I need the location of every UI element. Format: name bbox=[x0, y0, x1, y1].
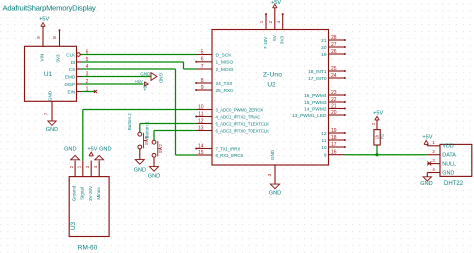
svg-text:Signal: Signal bbox=[79, 187, 84, 200]
svg-text:9: 9 bbox=[324, 153, 327, 159]
svg-text:19: 19 bbox=[321, 52, 327, 58]
svg-text:5V: 5V bbox=[272, 34, 277, 41]
svg-text:21: 21 bbox=[331, 104, 337, 110]
svg-text:4_ADC1_IRTX2_TRIAC: 4_ADC1_IRTX2_TRIAC bbox=[216, 114, 261, 119]
DHT22 pin 1 VDD bbox=[427, 145, 440, 147]
no-connect at DHT22 NULL bbox=[427, 161, 431, 165]
svg-text:17_INT0: 17_INT0 bbox=[308, 76, 327, 82]
svg-text:+5V: +5V bbox=[39, 17, 49, 23]
power +5V sideways on DISP bbox=[145, 82, 149, 86]
svg-text:+5V: +5V bbox=[142, 82, 147, 91]
svg-text:19: 19 bbox=[331, 128, 337, 134]
svg-text:3V3: 3V3 bbox=[280, 35, 285, 44]
U2 pin 27 20 bbox=[329, 46, 345, 48]
svg-text:5: 5 bbox=[201, 49, 204, 55]
svg-text:R2: R2 bbox=[380, 133, 385, 139]
svg-text:GND: GND bbox=[159, 73, 164, 84]
svg-text:16_PWM4: 16_PWM4 bbox=[304, 93, 327, 99]
svg-text:25_RX0: 25_RX0 bbox=[216, 88, 234, 94]
svg-text:10: 10 bbox=[198, 104, 204, 110]
wire EMD to GND flag bbox=[81, 76, 151, 78]
svg-text:D_SCK: D_SCK bbox=[216, 52, 233, 58]
svg-text:24: 24 bbox=[331, 73, 337, 79]
resistor R2 bbox=[376, 145, 378, 155]
svg-text:U2: U2 bbox=[267, 81, 276, 88]
U3 pin 3 3V-20V bbox=[90, 161, 92, 177]
svg-text:7: 7 bbox=[201, 64, 204, 70]
svg-text:22: 22 bbox=[331, 97, 337, 103]
svg-text:DHT22: DHT22 bbox=[444, 181, 464, 187]
svg-text:+5V: +5V bbox=[87, 147, 97, 153]
svg-text:4: 4 bbox=[432, 167, 435, 172]
U2 pin 13 6_ADC3_IRTX0_T0EXTCLK bbox=[197, 130, 213, 132]
U1 pin 1 EIN bbox=[77, 91, 82, 93]
U1 pin 5 DI bbox=[77, 61, 82, 63]
svg-text:VDD: VDD bbox=[442, 144, 453, 150]
wire SW2 to U2 6_ADC3 bbox=[153, 131, 155, 141]
svg-text:DISP: DISP bbox=[64, 82, 75, 87]
svg-text:2: 2 bbox=[432, 149, 435, 154]
svg-text:GND: GND bbox=[270, 149, 275, 160]
U2 pin 23 16_PWM4 bbox=[329, 94, 345, 96]
svg-text:13_PWM1_LED: 13_PWM1_LED bbox=[292, 113, 327, 119]
svg-text:12: 12 bbox=[198, 118, 204, 124]
ground at DHT22 GND bbox=[426, 173, 428, 177]
svg-text:CS: CS bbox=[69, 67, 75, 72]
U2 pin 9 25_RX0 bbox=[197, 89, 213, 91]
svg-text:GND: GND bbox=[269, 191, 281, 197]
svg-text:2: 2 bbox=[268, 20, 274, 23]
U2 pin 10 3_ADC0_PWM0_ZEROX bbox=[197, 109, 213, 111]
U2 pin 17 10 bbox=[329, 146, 345, 148]
svg-text:8: 8 bbox=[201, 78, 204, 84]
U3 pin 2 Ground bbox=[74, 161, 76, 177]
svg-text:GND: GND bbox=[134, 167, 146, 173]
svg-text:1: 1 bbox=[432, 140, 435, 145]
svg-text:GND: GND bbox=[148, 173, 160, 179]
svg-text:24_TX0: 24_TX0 bbox=[216, 81, 233, 87]
svg-text:RM-60: RM-60 bbox=[78, 244, 98, 251]
wire CLK to D_SCK bbox=[81, 54, 197, 56]
U1 pin 9 VIN bbox=[42, 30, 44, 46]
svg-text:EIN: EIN bbox=[68, 89, 76, 94]
DHT22 pin 4 GND bbox=[427, 172, 440, 174]
svg-text:Button 2: Button 2 bbox=[127, 113, 132, 131]
svg-text:8: 8 bbox=[52, 36, 58, 39]
svg-text:20: 20 bbox=[331, 110, 337, 116]
ground flag sideways on EMD bbox=[151, 73, 157, 81]
U1 pin 2 DISP bbox=[77, 83, 82, 85]
svg-text:6: 6 bbox=[201, 57, 204, 63]
svg-text:3V-20V: 3V-20V bbox=[88, 185, 93, 201]
svg-text:GND: GND bbox=[46, 127, 58, 133]
wire U3 Signal to U2 3_ADC0 bbox=[82, 110, 84, 161]
DHT22 pin 3 NULL bbox=[427, 163, 440, 165]
switch SW1 Button 2 bbox=[138, 132, 142, 136]
ground below SW1 bbox=[139, 149, 141, 160]
wire U2 pin16 to DHT22 DATA bbox=[345, 154, 428, 156]
svg-text:GND: GND bbox=[442, 170, 454, 176]
svg-text:3_ADC0_PWM0_ZEROX: 3_ADC0_PWM0_ZEROX bbox=[216, 107, 264, 112]
U2 pin 24 17_INT0 bbox=[329, 77, 345, 79]
U1 pin 6 CLK bbox=[77, 53, 81, 57]
svg-text:7-18V: 7-18V bbox=[263, 36, 268, 49]
wire SW1 to U2 5_ADC2 bbox=[139, 124, 141, 133]
MCU U2 Z-Uno body bbox=[212, 30, 329, 166]
svg-text:GND: GND bbox=[64, 147, 76, 153]
U2 pin 6 1_MISO bbox=[197, 61, 213, 63]
svg-text:13: 13 bbox=[198, 125, 204, 131]
svg-text:14: 14 bbox=[198, 143, 204, 149]
svg-text:27: 27 bbox=[331, 42, 337, 48]
svg-text:3: 3 bbox=[432, 158, 435, 163]
junction node at resistor bbox=[375, 153, 378, 156]
svg-text:NULL: NULL bbox=[442, 162, 456, 168]
U2 pin 3 GND bbox=[274, 165, 276, 184]
ground below SW2 bbox=[153, 157, 155, 166]
svg-text:15_PWM3: 15_PWM3 bbox=[304, 100, 327, 106]
U2 pin 15 8_RX1_SPICS bbox=[197, 154, 213, 156]
svg-text:U3: U3 bbox=[70, 221, 77, 230]
U2 pin 26 19 bbox=[329, 53, 345, 55]
svg-text:1: 1 bbox=[259, 20, 265, 23]
svg-text:+5V: +5V bbox=[271, 0, 281, 6]
power +5V at U1 VIN bbox=[42, 26, 44, 30]
svg-text:GND: GND bbox=[140, 72, 151, 77]
ground below U2 bbox=[270, 184, 279, 189]
U2 pin 14 7_TX1_IRRX bbox=[197, 148, 213, 150]
wire DISP to +5V flag bbox=[81, 83, 143, 85]
svg-text:21: 21 bbox=[321, 38, 327, 44]
svg-text:28: 28 bbox=[331, 35, 337, 41]
U2 pin 25 18_INT1 bbox=[329, 70, 345, 72]
U3 pin 4 Minus bbox=[98, 161, 100, 177]
U3 pin 1 Signal bbox=[82, 161, 84, 177]
svg-text:17: 17 bbox=[331, 142, 337, 148]
svg-text:5_ADC2_IRTX1_T1EXTCLK: 5_ADC2_IRTX1_T1EXTCLK bbox=[216, 121, 270, 126]
svg-text:11: 11 bbox=[322, 138, 327, 144]
svg-text:14_PWM2: 14_PWM2 bbox=[304, 106, 327, 112]
svg-text:3: 3 bbox=[267, 173, 273, 176]
svg-text:CLK: CLK bbox=[66, 52, 76, 57]
switch SW2 Button 1 bbox=[152, 140, 156, 144]
U2 pin 22 15_PWM3 bbox=[329, 101, 345, 103]
svg-text:U1: U1 bbox=[44, 71, 53, 78]
U2 pin 28 21 bbox=[329, 39, 345, 41]
U2 pin 11 4_ADC1_IRTX2_TRIAC bbox=[197, 116, 213, 118]
svg-text:2_MOSI: 2_MOSI bbox=[216, 67, 234, 73]
no-connect at EIN bbox=[94, 90, 97, 93]
svg-text:Button 1: Button 1 bbox=[145, 121, 150, 139]
svg-text:18: 18 bbox=[331, 135, 337, 141]
U2 pin 18 11 bbox=[329, 139, 345, 141]
svg-text:3V3: 3V3 bbox=[56, 54, 61, 63]
ground above U3 Ground pin bbox=[71, 155, 80, 159]
svg-text:DI: DI bbox=[71, 60, 76, 65]
svg-text:18_INT1: 18_INT1 bbox=[308, 69, 327, 75]
sensor DHT22 body bbox=[440, 144, 472, 176]
svg-text:23: 23 bbox=[331, 90, 337, 96]
svg-text:SW2: SW2 bbox=[158, 143, 163, 153]
svg-text:9: 9 bbox=[201, 85, 204, 91]
U2 pin 12 5_ADC2_IRTX1_T1EXTCLK bbox=[197, 123, 213, 125]
svg-text:16: 16 bbox=[331, 150, 337, 156]
U2 pin 16 9 bbox=[329, 154, 345, 156]
svg-text:6_ADC3_IRTX0_T0EXTCLK: 6_ADC3_IRTX0_T0EXTCLK bbox=[216, 128, 270, 133]
sensor U3 RM-60 body bbox=[69, 177, 109, 237]
U1 pin 7 GND bbox=[51, 101, 53, 120]
svg-text:8_RX1_SPICS: 8_RX1_SPICS bbox=[216, 153, 244, 158]
U2 pin 21 14_PWM2 bbox=[329, 108, 345, 110]
svg-text:Z-Uno: Z-Uno bbox=[263, 72, 282, 79]
U2 pin 19 12 bbox=[329, 132, 345, 134]
svg-text:GND: GND bbox=[99, 147, 111, 153]
svg-text:1_MISO: 1_MISO bbox=[216, 60, 234, 66]
wire DI to 2_MOSI bbox=[81, 61, 184, 63]
svg-text:7_TX1_IRRX: 7_TX1_IRRX bbox=[216, 146, 241, 151]
U2 pin 5 D_SCK bbox=[197, 54, 213, 56]
U2 pin 8 24_TX0 bbox=[197, 82, 213, 84]
power +5V above resistor bbox=[375, 116, 379, 120]
svg-text:15: 15 bbox=[198, 150, 204, 156]
svg-text:GND: GND bbox=[48, 90, 53, 101]
U1 pin 8 3V3 bbox=[59, 30, 61, 46]
DHT22 pin 2 DATA bbox=[427, 154, 440, 156]
svg-text:25: 25 bbox=[331, 66, 337, 72]
svg-text:EMD: EMD bbox=[65, 74, 76, 79]
svg-text:AdafruitSharpMemoryDisplay: AdafruitSharpMemoryDisplay bbox=[3, 3, 96, 12]
display module U1 AdafruitSharpMemoryDisplay body bbox=[25, 46, 77, 101]
U2 pin 20 13_PWM1_LED bbox=[329, 114, 345, 116]
svg-text:+5V: +5V bbox=[422, 135, 432, 141]
U2 pin 2 5V bbox=[274, 8, 276, 30]
svg-text:7: 7 bbox=[43, 112, 49, 115]
svg-text:+5V: +5V bbox=[373, 111, 383, 117]
ground below U1 bbox=[48, 120, 56, 122]
power +5V above U3 3V-20V pin bbox=[89, 152, 93, 156]
svg-text:DATA: DATA bbox=[442, 153, 456, 159]
svg-text:10: 10 bbox=[321, 145, 327, 151]
U2 pin 1 7-18V bbox=[265, 14, 267, 29]
ground above U3 Minus pin bbox=[95, 155, 104, 159]
svg-text:9: 9 bbox=[36, 36, 42, 39]
U1 pin 3 EMD bbox=[77, 76, 82, 78]
wire CS to 8_RX1_SPICS bbox=[81, 68, 176, 70]
svg-text:VIN: VIN bbox=[40, 54, 45, 62]
svg-text:GND: GND bbox=[420, 181, 432, 187]
U2 pin 7 2_MOSI bbox=[197, 68, 213, 70]
svg-text:20: 20 bbox=[321, 45, 327, 51]
power +5V at U2 5V pin bbox=[273, 4, 277, 8]
power +5V at DHT22 VDD bbox=[426, 145, 428, 146]
svg-text:11: 11 bbox=[198, 111, 203, 117]
svg-text:26: 26 bbox=[331, 49, 337, 55]
svg-text:4: 4 bbox=[276, 20, 282, 23]
wire EIN stub bbox=[81, 91, 95, 93]
U2 pin 4 3V3 bbox=[282, 14, 284, 29]
svg-text:Ground: Ground bbox=[72, 185, 77, 201]
svg-text:Minus: Minus bbox=[96, 187, 101, 200]
U1 pin 4 CS bbox=[77, 68, 82, 70]
svg-text:12: 12 bbox=[321, 131, 327, 137]
